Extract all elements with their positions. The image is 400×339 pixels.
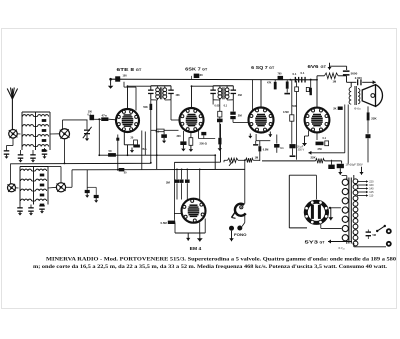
- ground det b: [286, 89, 288, 93]
- tube V2 6SK7GT: [180, 108, 204, 132]
- capacitor T2 return: [217, 119, 223, 123]
- svg-text:47n: 47n: [102, 114, 107, 118]
- wire det line y162: [174, 161, 220, 163]
- svg-text:110: 110: [369, 195, 374, 198]
- arrow V3 k: [269, 132, 271, 138]
- ground V3 bar: [255, 141, 257, 144]
- wire b+ riser 1: [344, 105, 346, 153]
- wire antenna bus y163: [11, 162, 152, 165]
- resistor det a: [274, 82, 277, 90]
- node j3: [176, 169, 178, 171]
- wire osc block to S2b: [48, 186, 56, 189]
- resistor AVC V2: [157, 129, 165, 132]
- resistor V4 grid box: [306, 87, 309, 91]
- node j12: [290, 79, 292, 81]
- wire pickup down: [244, 216, 246, 223]
- tube V5 5Y3GT rectifier: [304, 200, 329, 225]
- wire em4 left: [174, 213, 181, 215]
- wire S1a down: [12, 138, 14, 145]
- svg-text:22K: 22K: [311, 156, 316, 160]
- antenna coil block L1-L4: [23, 115, 34, 117]
- wire pot link: [238, 159, 246, 161]
- resistor filter 22K: [316, 159, 325, 164]
- svg-text:MINERVA RADIO - Mod. PORTOVE: MINERVA RADIO - Mod. PORTOVENERE 515/3. …: [46, 257, 396, 263]
- wire coil block to S1b: [50, 133, 60, 135]
- capacitor V2 k: [201, 132, 206, 135]
- IF transformer T2: [213, 85, 233, 87]
- capacitor C3: [30, 154, 36, 155]
- capacitor em4 a: [175, 180, 180, 183]
- wire S2a to osc block: [16, 187, 19, 189]
- pickup needle: [232, 212, 236, 218]
- svg-text:GT: GT: [136, 68, 143, 72]
- svg-text:FONO: FONO: [234, 232, 247, 237]
- resistor 50K t1: [150, 104, 153, 110]
- wire V3 top: [260, 80, 262, 108]
- band switch S1a: [9, 130, 18, 139]
- wire step vertical: [156, 101, 158, 170]
- capacitor C7: [39, 205, 45, 206]
- wire diode caps to grid: [232, 119, 234, 122]
- capacitor AVC V2: [161, 134, 167, 138]
- resistor grid leak V4: [324, 73, 338, 79]
- tube V1 6TE8GT: [116, 109, 139, 132]
- capacitor padder C9: [94, 195, 99, 198]
- trimmer antenna: [86, 120, 88, 129]
- svg-text:6SK 7: 6SK 7: [185, 66, 201, 71]
- wire V3 k rail: [256, 140, 270, 142]
- wire em4 bottom rail: [175, 232, 205, 234]
- svg-text:0.05: 0.05: [215, 104, 220, 107]
- ground at B+ bus left end: [110, 79, 112, 86]
- wire feedback: [330, 65, 347, 67]
- ground C4: [44, 154, 46, 157]
- wire V4 cathode: [316, 133, 318, 141]
- wire T2 primary return: [212, 100, 214, 105]
- capacitor filter C13: [337, 164, 344, 168]
- node j10: [127, 85, 129, 87]
- wire em4 pin left: [174, 223, 176, 234]
- wire V4 plate: [316, 76, 318, 108]
- svg-text:25m: 25m: [142, 148, 148, 151]
- wire 5Y3 filament: [320, 224, 322, 229]
- wire S2b up: [60, 167, 62, 183]
- svg-text:2K: 2K: [333, 107, 336, 111]
- oscillator coil block L5-L8: [21, 169, 32, 171]
- tube V3 6SQ7GT: [249, 108, 274, 133]
- svg-text:300: 300: [177, 135, 182, 138]
- svg-text:47K: 47K: [267, 81, 272, 84]
- arrow heater left: [328, 241, 352, 243]
- resistor plate V3 290: [290, 115, 294, 121]
- wire B+ feed: [313, 152, 345, 154]
- capacitor mains 5M: [366, 231, 371, 232]
- fono jack right: [237, 226, 242, 231]
- wire V3 bottom: [255, 134, 257, 141]
- resistor cathode V4: [325, 141, 329, 146]
- resistor det b: [286, 82, 289, 89]
- svg-text:6·³/₄₄: 6·³/₄₄: [339, 246, 345, 250]
- wire fono gnd: [231, 231, 233, 242]
- capacitor diode C10: [230, 112, 235, 115]
- svg-text:50K: 50K: [292, 105, 297, 108]
- wire AVC feed: [151, 129, 157, 131]
- svg-text:760: 760: [278, 73, 283, 76]
- wire grid line: [94, 118, 101, 120]
- ground V2 k1: [182, 145, 184, 149]
- wire tone down: [367, 138, 369, 162]
- wire V1 p2 down: [141, 131, 143, 170]
- output transformer T3: [349, 87, 351, 104]
- ground C9: [95, 198, 97, 200]
- node j1: [150, 162, 152, 164]
- power transformer T4: [342, 179, 348, 185]
- node j5: [186, 169, 188, 171]
- svg-text:0.1: 0.1: [301, 71, 305, 75]
- ground em4 b: [199, 233, 201, 242]
- node V4 grid: [310, 79, 312, 81]
- tube V4 6V6GT: [305, 108, 330, 133]
- capacitor C4: [42, 150, 48, 151]
- node osc sq: [116, 138, 119, 141]
- svg-text:6 SQ 7: 6 SQ 7: [251, 65, 268, 70]
- wire T2 return down: [219, 122, 221, 138]
- pickup head: [235, 204, 246, 216]
- wire bus to S2a: [10, 163, 12, 184]
- resistor 0.5M em4: [168, 221, 175, 224]
- wire 5000 down: [346, 76, 348, 82]
- wire tweeter: [347, 81, 357, 83]
- svg-text:20: 20: [131, 137, 134, 140]
- band switch S1b: [60, 129, 70, 139]
- wire pickup riser: [244, 160, 246, 203]
- svg-text:2M: 2M: [166, 180, 171, 184]
- wire V2 k3: [198, 131, 200, 139]
- svg-text:1M: 1M: [255, 155, 259, 159]
- wire plate loop: [289, 174, 316, 176]
- wire V3 grid riser top: [252, 80, 254, 112]
- ground C2: [20, 158, 22, 160]
- wire em4 v1: [176, 169, 178, 179]
- capacitor 16uF: [289, 144, 295, 148]
- wire T1 secondary down: [170, 100, 172, 120]
- wire AVC feed b: [164, 129, 178, 131]
- fono jack left: [229, 226, 234, 231]
- resistor cathode V2: [189, 138, 193, 146]
- svg-text:0.1: 0.1: [280, 147, 284, 150]
- resistor cathode V1: [134, 140, 138, 145]
- wire pot to avc: [224, 159, 228, 161]
- svg-text:100: 100: [199, 74, 204, 77]
- capacitor V3 out: [276, 135, 278, 144]
- wire 296 down: [296, 92, 298, 160]
- svg-text:m; onde corte da 16,5 a 22,5 m: m; onde corte da 16,5 a 22,5 m, da 22 a …: [33, 264, 388, 270]
- wire cathode bus y155: [99, 154, 215, 156]
- capacitor diode C11: [230, 116, 235, 119]
- ground V1 cap: [131, 148, 133, 151]
- wire S1b down to AVC: [64, 139, 66, 164]
- capacitor 2000: [357, 79, 358, 85]
- capacitor C2: [18, 154, 24, 155]
- capacitor det bus: [278, 76, 284, 80]
- resistor T2 lower: [218, 138, 221, 145]
- wire switch stub: [370, 230, 377, 232]
- svg-text:0.5M: 0.5M: [161, 221, 168, 225]
- svg-text:0.5M: 0.5M: [283, 111, 289, 114]
- capacitor 47n: [101, 117, 108, 121]
- svg-text:GT: GT: [321, 65, 328, 69]
- svg-text:468: 468: [238, 94, 243, 97]
- svg-text:0.1: 0.1: [224, 104, 228, 107]
- wire 290 down: [291, 121, 293, 144]
- capacitor V4 grid: [310, 88, 312, 95]
- capacitor C5: [17, 207, 23, 208]
- wire V2 plate: [191, 86, 193, 108]
- wire em4 v2: [181, 169, 183, 179]
- mains plug prong 2: [386, 241, 392, 247]
- capacitor em4 c: [185, 180, 190, 183]
- wire S2b to V1 osc: [66, 186, 72, 188]
- node grid junction: [98, 118, 100, 120]
- wire em4 v4: [199, 169, 201, 199]
- wire S1b up: [62, 120, 64, 130]
- ground C1: [6, 154, 8, 157]
- svg-text:0.1: 0.1: [293, 72, 297, 76]
- svg-text:GT: GT: [202, 67, 208, 71]
- ground AVC V2: [163, 138, 165, 141]
- resistor T2 return: [218, 111, 222, 117]
- wire em4 right: [199, 222, 201, 233]
- svg-text:0.1: 0.1: [323, 137, 327, 140]
- wire OT top stub: [350, 82, 352, 87]
- capacitor grid V1: [90, 115, 95, 120]
- wire speaker down: [367, 106, 369, 112]
- wire zigzag to 5000: [338, 75, 346, 77]
- svg-text:100: 100: [123, 74, 128, 77]
- capacitor 5000: [343, 70, 350, 72]
- wire V1 p3 down: [144, 132, 146, 156]
- ground filter C12: [361, 167, 363, 175]
- wire AVC line y169: [72, 168, 245, 170]
- ground C8: [86, 193, 88, 195]
- svg-text:5Y3: 5Y3: [305, 239, 319, 244]
- resistor osc 50: [119, 168, 125, 171]
- wire top B+ bus: [111, 78, 317, 81]
- node j15: [214, 154, 216, 156]
- resistor 1M series: [246, 158, 254, 162]
- wire screen node right: [325, 160, 342, 162]
- capacitor cathode V1: [133, 145, 140, 148]
- power switch: [378, 226, 385, 231]
- transformer voltage taps: [357, 181, 366, 183]
- node B+ bus left end: [109, 78, 112, 81]
- node V1 cathode bus: [127, 154, 129, 156]
- node j14: [316, 79, 318, 81]
- svg-text:50: 50: [109, 149, 112, 153]
- ground C6: [30, 211, 32, 213]
- node j6: [199, 169, 201, 171]
- svg-text:6TE 8: 6TE 8: [117, 67, 135, 72]
- node pickup riser: [244, 159, 246, 161]
- arrow tweeter: [371, 81, 376, 83]
- wire b+ riser 2: [347, 105, 349, 164]
- wire V4 grid: [310, 80, 312, 92]
- resistor 50 osc: [108, 153, 116, 157]
- tube EM4: [182, 199, 206, 223]
- pickup pivot: [240, 206, 243, 209]
- wire V1 screen: [123, 82, 125, 87]
- capacitor C1: [4, 150, 10, 151]
- wire heater ct: [330, 207, 341, 209]
- wire 47n to V1: [108, 118, 116, 121]
- capacitor 2K plate: [338, 107, 343, 110]
- resistor 0.5M v3: [259, 141, 261, 147]
- IF transformer T1: [151, 85, 171, 87]
- capacitor coupling Cb: [301, 77, 302, 83]
- svg-text:0·¹/₂₅: 0·¹/₂₅: [355, 107, 362, 111]
- wire grid leak down: [98, 119, 100, 155]
- ground V2 k2: [190, 145, 192, 149]
- ground C7: [41, 209, 43, 211]
- band switch S2a: [8, 184, 16, 192]
- ground em4 a: [187, 233, 189, 241]
- wire 22k down: [367, 120, 369, 133]
- wire em4 v3: [186, 169, 188, 179]
- svg-text:GT: GT: [269, 66, 275, 70]
- resistor grid V4 296: [295, 87, 299, 92]
- wire V1 cathode down: [123, 132, 125, 145]
- svg-text:468: 468: [176, 94, 181, 97]
- wire em4 left riser: [173, 162, 175, 219]
- ground filter C13: [339, 168, 341, 175]
- svg-text:350 V: 350 V: [298, 149, 305, 152]
- wire T2 down vertical: [214, 155, 216, 169]
- wire v4 top link: [317, 75, 324, 77]
- resistor 22K: [367, 112, 370, 120]
- svg-text:22K: 22K: [371, 117, 377, 121]
- ground T2 return: [219, 144, 221, 148]
- svg-text:50: 50: [124, 171, 127, 174]
- capacitor cathode V2: [180, 141, 186, 145]
- capacitor filter C12: [328, 165, 334, 169]
- svg-text:GT: GT: [320, 240, 326, 244]
- wire T2 secondary down: [232, 100, 234, 112]
- wire V1 plate: [127, 86, 129, 109]
- capacitor padder C8: [85, 190, 90, 193]
- svg-text:1M: 1M: [333, 79, 337, 83]
- node j13: [296, 79, 298, 81]
- svg-text:16+16μF 350V: 16+16μF 350V: [346, 162, 363, 166]
- resistor screen V1: [115, 76, 120, 81]
- wire xfmr top: [342, 175, 347, 177]
- resistor screen V2: [194, 74, 200, 78]
- capacitor C6: [28, 207, 34, 208]
- wire S1a to coil block: [17, 133, 20, 135]
- node j9: [64, 163, 66, 165]
- ground C3: [32, 158, 34, 160]
- ground V3: [249, 134, 251, 136]
- svg-text:250-Ω: 250-Ω: [200, 141, 207, 145]
- capacitor tone: [366, 134, 371, 138]
- wire T1 return down: [150, 100, 152, 163]
- svg-text:5M: 5M: [373, 234, 376, 237]
- wire resistor out: [253, 159, 260, 161]
- ground heater ct: [330, 208, 332, 221]
- wire V3 grid riser: [220, 124, 222, 162]
- ground 16uF: [292, 148, 294, 155]
- wire V2 cathode: [182, 131, 184, 141]
- node j8: [117, 169, 119, 171]
- antenna: [11, 98, 13, 130]
- speaker LS: [362, 85, 375, 107]
- wire screen node y161: [262, 160, 316, 162]
- svg-text:0.5M: 0.5M: [263, 149, 269, 152]
- svg-text:0.1: 0.1: [88, 113, 92, 116]
- wire V4 k gnd: [308, 131, 310, 137]
- node j7: [98, 154, 100, 156]
- wire em4 pin right: [204, 219, 206, 234]
- arrow feedback: [329, 63, 331, 70]
- node j4: [181, 169, 183, 171]
- ground C5: [19, 211, 21, 213]
- ground V4: [304, 136, 306, 146]
- svg-text:2M: 2M: [238, 113, 243, 117]
- wire V2 grid return: [191, 76, 193, 80]
- svg-text:6V6: 6V6: [308, 64, 320, 69]
- band switch S2b: [56, 183, 65, 192]
- capacitor cathode V4: [316, 142, 324, 146]
- capacitor em4 b: [180, 180, 184, 183]
- svg-text:5000: 5000: [351, 71, 358, 75]
- potentiometer volume 1M: [228, 158, 239, 162]
- wire secondary bottom: [354, 246, 386, 248]
- capacitor coupling Ca: [295, 77, 296, 83]
- arrow B+ left: [308, 152, 312, 154]
- node j11: [191, 85, 193, 87]
- svg-text:2.000: 2.000: [355, 76, 362, 80]
- svg-text:50K: 50K: [143, 106, 148, 109]
- svg-text:250: 250: [318, 147, 323, 151]
- wire prong link: [353, 243, 386, 245]
- node heater ct: [329, 207, 331, 209]
- svg-text:EM 4: EM 4: [190, 246, 202, 251]
- mains plug prong 1: [386, 228, 392, 234]
- node j2: [156, 154, 158, 156]
- wire loop to anode: [315, 175, 317, 199]
- svg-text:0.1: 0.1: [156, 131, 160, 134]
